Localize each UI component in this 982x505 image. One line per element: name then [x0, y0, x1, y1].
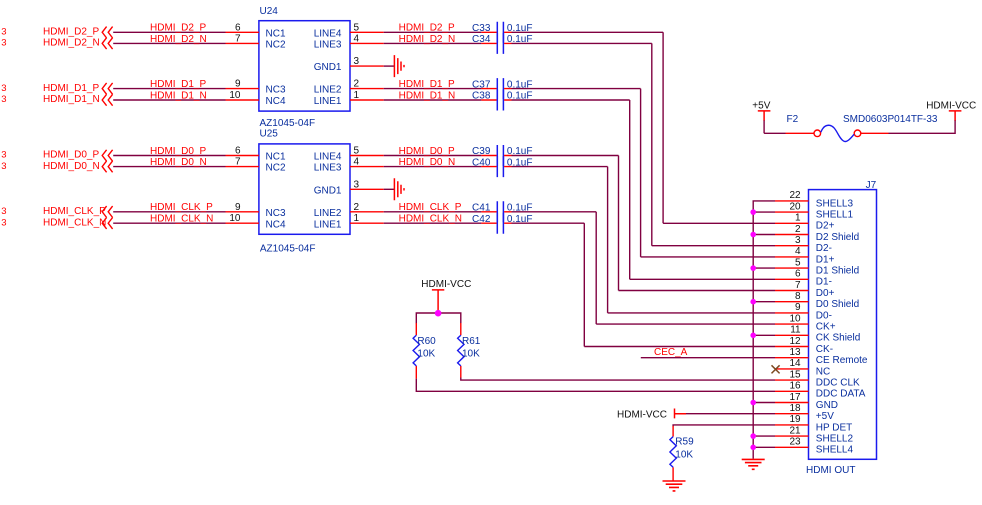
svg-text:HDMI OUT: HDMI OUT: [806, 465, 855, 476]
svg-text:4: 4: [354, 33, 360, 44]
svg-text:16: 16: [789, 381, 801, 392]
junction dot at y301.7: [750, 299, 756, 305]
resistor R60 pins: [415, 323, 417, 379]
svg-text:NC: NC: [816, 366, 830, 377]
svg-text:11: 11: [790, 325, 801, 336]
off-page port chevron HDMI_D2_N: [102, 38, 112, 49]
svg-text:NC4: NC4: [266, 96, 286, 107]
svg-text:LINE4: LINE4: [314, 152, 342, 163]
svg-text:NC3: NC3: [266, 208, 286, 219]
wire HDMI_D2_P vertical drop: [662, 32, 664, 223]
svg-text:D1 Shield: D1 Shield: [816, 266, 859, 277]
wire U25 GND1 to ground: [384, 188, 395, 190]
wire HDMI_CLK_P vertical drop: [595, 212, 597, 324]
ground below R59: [663, 481, 686, 491]
svg-text:HDMI_CLK_P: HDMI_CLK_P: [43, 206, 106, 217]
power HDMI-VCC bar at pin 18: [675, 409, 687, 419]
svg-text:D1+: D1+: [816, 254, 835, 265]
capacitor C37 pins: [481, 88, 511, 90]
svg-text:3: 3: [795, 235, 801, 246]
svg-text:15: 15: [789, 369, 801, 380]
svg-text:2: 2: [354, 79, 360, 90]
capacitor C38 pins: [481, 99, 511, 101]
connector J7 pin numbers: [789, 190, 801, 447]
wire HDMI_CLK_P to J7: [596, 323, 775, 325]
junction dot at y268.1: [750, 265, 756, 271]
svg-text:3: 3: [1, 38, 6, 49]
off-page port chevron HDMI_CLK_N: [102, 218, 112, 229]
svg-text:7: 7: [235, 157, 241, 168]
svg-text:HDMI_D2_P: HDMI_D2_P: [150, 23, 206, 34]
svg-text:3: 3: [1, 27, 6, 38]
svg-text:CE Remote: CE Remote: [816, 355, 868, 366]
wire HDMI_CLK_P to chip: [113, 211, 225, 213]
svg-text:NC2: NC2: [266, 40, 286, 51]
capacitor C39 pins: [481, 155, 511, 157]
svg-text:LINE1: LINE1: [314, 96, 342, 107]
svg-text:23: 23: [789, 437, 801, 448]
wire +5V to fuse: [764, 132, 785, 134]
wire HDMI_D0_N to chip: [113, 166, 225, 168]
ground U24 GND1: [394, 55, 404, 77]
resistor R59 body: [670, 437, 676, 468]
svg-text:7: 7: [795, 280, 801, 291]
svg-text:4: 4: [795, 246, 801, 257]
fuse F2 symbol: [814, 130, 821, 137]
svg-text:HDMI_D2_N: HDMI_D2_N: [43, 38, 100, 49]
svg-text:10: 10: [229, 213, 241, 224]
svg-text:HDMI_CLK_N: HDMI_CLK_N: [43, 217, 106, 228]
svg-text:6: 6: [795, 269, 801, 280]
svg-text:SHELL2: SHELL2: [816, 434, 854, 445]
svg-text:HDMI_D0_N: HDMI_D0_N: [150, 157, 207, 168]
ground at bus bottom: [742, 459, 765, 469]
capacitor C38 plates: [497, 90, 503, 111]
svg-text:DDC DATA: DDC DATA: [816, 389, 866, 400]
svg-text:D0 Shield: D0 Shield: [816, 299, 859, 310]
junction dot at y234.5: [750, 232, 756, 238]
svg-text:HDMI_D1_N: HDMI_D1_N: [150, 90, 207, 101]
wire bus to pin at y212.1: [753, 211, 775, 213]
svg-text:HDMI_D2_N: HDMI_D2_N: [150, 34, 207, 45]
power HDMI-VCC bar above R60 R61: [432, 290, 444, 313]
IC U25 AZ1045-04F box: [259, 144, 350, 234]
svg-text:1: 1: [354, 213, 360, 224]
wire HDMI-VCC branch to R60 and R61: [416, 313, 461, 324]
wire bus to pin at y436.1: [753, 435, 775, 437]
svg-text:D2+: D2+: [816, 221, 835, 232]
svg-text:9: 9: [795, 302, 801, 313]
wire shield ground bus: [753, 201, 775, 459]
svg-text:3: 3: [1, 161, 6, 172]
svg-text:6: 6: [235, 146, 241, 157]
wire HDMI_D1_N chip to C38: [384, 99, 482, 101]
wire HDMI_D0_N chip to C40: [384, 166, 482, 168]
svg-text:3: 3: [1, 206, 6, 217]
svg-text:HDMI_D1_P: HDMI_D1_P: [150, 79, 206, 90]
wire HDMI_D0_N vertical drop: [607, 167, 609, 313]
svg-text:NC3: NC3: [266, 85, 286, 96]
svg-text:18: 18: [789, 403, 801, 414]
svg-text:LINE3: LINE3: [314, 163, 342, 174]
capacitor C39 plates: [497, 145, 503, 166]
svg-text:R60: R60: [417, 336, 436, 347]
svg-text:3: 3: [354, 179, 360, 190]
svg-text:LINE3: LINE3: [314, 40, 342, 51]
wire HDMI_D2_P to J7: [663, 222, 775, 224]
wire HDMI_CLK_N chip to C42: [384, 222, 482, 224]
wire bus to pin at y402.5: [753, 402, 775, 404]
svg-text:U24: U24: [260, 6, 279, 17]
U25 left pin stubs pins 6 7 9 10: [226, 146, 259, 225]
svg-text:HDMI_D1_P: HDMI_D1_P: [399, 79, 455, 90]
svg-text:6: 6: [235, 22, 241, 33]
svg-text:CK+: CK+: [816, 322, 836, 333]
svg-text:HDMI_D1_P: HDMI_D1_P: [43, 83, 99, 94]
junction dot at y436.1: [750, 433, 756, 439]
svg-text:LINE4: LINE4: [314, 28, 342, 39]
wire HDMI_CLK_N cap to corner: [512, 222, 585, 224]
wire R61 to DDC CLK pin 15: [461, 378, 775, 381]
svg-text:1: 1: [795, 213, 801, 224]
capacitor C40 plates: [497, 156, 503, 177]
svg-text:LINE1: LINE1: [314, 219, 342, 230]
wire bus to pin at y447.3: [753, 446, 775, 448]
capacitor C42 pins: [481, 222, 511, 224]
svg-text:21: 21: [789, 425, 801, 436]
svg-text:GND1: GND1: [314, 185, 342, 196]
svg-text:HDMI_D2_P: HDMI_D2_P: [43, 27, 99, 38]
wire HDMI_D0_P to J7: [619, 290, 776, 292]
wire HDMI_D1_P chip to C37: [384, 88, 482, 90]
wire HDMI_D0_P vertical drop: [618, 156, 620, 291]
svg-text:HDMI_D0_N: HDMI_D0_N: [399, 157, 456, 168]
svg-text:14: 14: [789, 358, 801, 369]
svg-text:3: 3: [354, 56, 360, 67]
svg-text:13: 13: [789, 347, 801, 358]
junction node R60 R61 feed: [435, 310, 442, 317]
wire HP DET pin 19 to R59: [673, 425, 775, 426]
connector J7 box: [809, 190, 877, 460]
svg-text:10: 10: [789, 313, 801, 324]
wire HDMI_CLK_P chip to C41: [384, 211, 482, 213]
off-page port chevron HDMI_CLK_P: [102, 206, 112, 217]
connector J7 pin names: [816, 198, 868, 455]
svg-text:10K: 10K: [417, 349, 435, 360]
off-page port chevron HDMI_D2_P: [102, 27, 112, 38]
IC U24 AZ1045-04F box: [259, 21, 350, 111]
svg-text:7: 7: [235, 33, 241, 44]
svg-text:4: 4: [354, 157, 360, 168]
svg-text:HDMI_D0_P: HDMI_D0_P: [150, 146, 206, 157]
svg-text:D1-: D1-: [816, 277, 832, 288]
wire R60 to DDC DATA pin 16: [416, 379, 775, 392]
wire HDMI_D1_P to J7: [641, 256, 775, 258]
svg-text:10K: 10K: [675, 449, 693, 460]
wire HDMI_D2_N chip to C34: [384, 42, 482, 44]
wire HDMI_D1_N to J7: [630, 278, 775, 280]
svg-text:8: 8: [795, 291, 801, 302]
svg-text:D2-: D2-: [816, 243, 832, 254]
svg-text:AZ1045-04F: AZ1045-04F: [260, 243, 316, 254]
wire bus to pin at y335.3: [753, 334, 775, 336]
svg-text:3: 3: [1, 83, 6, 94]
wire HDMI_D0_P to chip: [113, 155, 225, 157]
U25 right pin stubs pins 5 4 3 2 1: [350, 146, 384, 225]
fuse F2 left pin: [786, 132, 814, 134]
svg-text:3: 3: [1, 217, 6, 228]
svg-text:22: 22: [789, 190, 801, 201]
resistor R60 body: [413, 335, 419, 366]
power HDMI-VCC bar symbol top right: [949, 111, 962, 121]
svg-text:HDMI_D2_N: HDMI_D2_N: [399, 34, 456, 45]
svg-text:HP DET: HP DET: [816, 422, 853, 433]
wire HDMI_D0_N to J7: [608, 312, 775, 314]
wire HDMI_D1_N vertical drop: [629, 100, 631, 279]
svg-text:HDMI_D1_N: HDMI_D1_N: [43, 94, 100, 105]
off-page port chevron HDMI_D0_N: [102, 161, 112, 172]
wire bus to pin at y234.5: [753, 234, 775, 236]
svg-text:HDMI_D0_N: HDMI_D0_N: [43, 161, 100, 172]
no-connect X on pin 14: [772, 365, 780, 373]
svg-text:20: 20: [789, 201, 801, 212]
svg-text:HDMI_D0_P: HDMI_D0_P: [43, 150, 99, 161]
off-page port chevron HDMI_D0_P: [102, 150, 112, 161]
svg-text:17: 17: [789, 392, 801, 403]
off-page port chevron HDMI_D1_N: [102, 94, 112, 105]
svg-text:HDMI_CLK_N: HDMI_CLK_N: [150, 214, 213, 225]
svg-text:HDMI_D2_P: HDMI_D2_P: [399, 23, 455, 34]
capacitor C34 pins: [481, 42, 511, 44]
svg-text:J7: J7: [866, 180, 877, 191]
capacitor C33 plates: [497, 22, 503, 43]
resistor R61 body: [458, 335, 464, 366]
U24 right pin stubs pins 5 4 3 2 1: [350, 22, 384, 101]
svg-text:D2 Shield: D2 Shield: [816, 232, 859, 243]
junction dot at y402.5: [750, 400, 756, 406]
wire HDMI_CLK_N vertical drop: [583, 223, 585, 346]
wire HDMI-VCC to pin 18: [686, 413, 775, 415]
wire HDMI_D1_N to chip: [113, 99, 225, 101]
junction dot at y335.3: [750, 333, 756, 339]
capacitor C41 pins: [481, 211, 511, 213]
svg-text:NC2: NC2: [266, 163, 286, 174]
svg-text:GND1: GND1: [314, 62, 342, 73]
fuse F2 right pin: [861, 132, 889, 134]
wire HDMI_D2_N vertical drop: [651, 43, 653, 245]
svg-text:+5V: +5V: [752, 100, 770, 111]
svg-text:HDMI_CLK_P: HDMI_CLK_P: [399, 202, 462, 213]
svg-text:HDMI_D1_N: HDMI_D1_N: [399, 90, 456, 101]
wire HDMI_D0_P cap to corner: [512, 155, 619, 157]
svg-text:AZ1045-04F: AZ1045-04F: [260, 118, 316, 129]
svg-text:9: 9: [235, 202, 241, 213]
wire HDMI_D1_P cap to corner: [512, 88, 641, 90]
capacitor C40 pins: [481, 166, 511, 168]
wire U24 GND1 to ground: [384, 65, 395, 67]
svg-text:LINE2: LINE2: [314, 208, 342, 219]
svg-text:+5V: +5V: [816, 411, 834, 422]
svg-text:5: 5: [795, 257, 801, 268]
capacitor C42 plates: [497, 213, 503, 234]
junction dot at y447.3: [750, 445, 756, 451]
svg-text:HDMI-VCC: HDMI-VCC: [926, 100, 976, 111]
svg-text:HDMI_CLK_N: HDMI_CLK_N: [399, 214, 462, 225]
svg-text:SHELL3: SHELL3: [816, 198, 854, 209]
svg-text:GND: GND: [816, 400, 838, 411]
wire HDMI_D0_N cap to corner: [512, 166, 608, 168]
svg-text:19: 19: [789, 414, 801, 425]
svg-text:NC1: NC1: [266, 152, 286, 163]
U24 pin names: [266, 28, 342, 107]
svg-text:3: 3: [1, 150, 6, 161]
off-page port chevron HDMI_D1_P: [102, 83, 112, 94]
ground U25 GND1: [394, 178, 404, 200]
U25 pin names: [266, 152, 342, 231]
svg-text:10: 10: [229, 90, 241, 101]
wire CEC_A to pin 13: [641, 357, 775, 359]
svg-text:NC1: NC1: [266, 28, 286, 39]
power +5V bar symbol: [758, 111, 771, 121]
wire HDMI_D2_P chip to C33: [384, 31, 482, 33]
svg-text:F2: F2: [787, 114, 799, 125]
svg-text:5: 5: [354, 22, 360, 33]
svg-text:12: 12: [789, 336, 801, 347]
svg-text:1: 1: [354, 90, 360, 101]
wire bus to pin at y301.7: [753, 301, 775, 303]
svg-text:LINE2: LINE2: [314, 85, 342, 96]
wire fuse to HDMI-VCC: [889, 121, 956, 134]
wire HDMI_D1_P to chip: [113, 88, 225, 90]
capacitor C34 plates: [497, 33, 503, 54]
svg-text:D0+: D0+: [816, 288, 835, 299]
svg-text:CEC_A: CEC_A: [654, 347, 688, 358]
wire HDMI_D2_P to chip: [113, 31, 225, 33]
wire HDMI_D0_P chip to C39: [384, 155, 482, 157]
wire HDMI_D2_N to chip: [113, 42, 225, 44]
junction dot at y212.1: [750, 209, 756, 215]
svg-text:5: 5: [354, 146, 360, 157]
svg-text:R59: R59: [675, 437, 694, 448]
wire HDMI_D2_N to J7: [652, 245, 775, 247]
wire HDMI_CLK_P cap to corner: [512, 211, 597, 213]
capacitor C37 plates: [497, 78, 503, 99]
svg-text:CK Shield: CK Shield: [816, 333, 860, 344]
wire HDMI_D1_N cap to corner: [512, 99, 630, 101]
resistor R59 pins: [672, 426, 674, 481]
svg-text:2: 2: [354, 202, 360, 213]
wire HDMI_D2_N cap to corner: [512, 42, 652, 44]
svg-text:HDMI-VCC: HDMI-VCC: [617, 409, 667, 420]
svg-text:SMD0603P014TF-33: SMD0603P014TF-33: [843, 114, 938, 125]
svg-text:D0-: D0-: [816, 310, 832, 321]
svg-text:DDC CLK: DDC CLK: [816, 378, 860, 389]
svg-text:U25: U25: [260, 129, 279, 140]
svg-text:2: 2: [795, 224, 801, 235]
svg-text:HDMI-VCC: HDMI-VCC: [421, 279, 471, 290]
svg-text:CK-: CK-: [816, 344, 833, 355]
svg-text:NC4: NC4: [266, 219, 286, 230]
svg-text:SHELL4: SHELL4: [816, 445, 854, 456]
svg-text:HDMI_CLK_P: HDMI_CLK_P: [150, 202, 213, 213]
wire HDMI_CLK_N to chip: [113, 222, 225, 224]
svg-text:3: 3: [1, 94, 6, 105]
connector J7 pin stubs: [775, 201, 809, 447]
svg-text:R61: R61: [462, 336, 481, 347]
svg-text:HDMI_D0_P: HDMI_D0_P: [399, 146, 455, 157]
capacitor C33 pins: [481, 31, 511, 33]
capacitor C41 plates: [497, 201, 503, 222]
wire bus to pin at y268.1: [753, 267, 775, 269]
svg-text:10K: 10K: [462, 349, 480, 360]
wire HDMI_D2_P cap to corner: [512, 31, 664, 33]
svg-text:SHELL1: SHELL1: [816, 210, 854, 221]
U24 left pin stubs pins 6 7 9 10: [226, 22, 259, 101]
wire HDMI_CLK_N to J7: [584, 346, 775, 348]
svg-text:9: 9: [235, 79, 241, 90]
resistor R61 pins: [460, 323, 462, 378]
wire HDMI_D1_P vertical drop: [640, 89, 642, 257]
